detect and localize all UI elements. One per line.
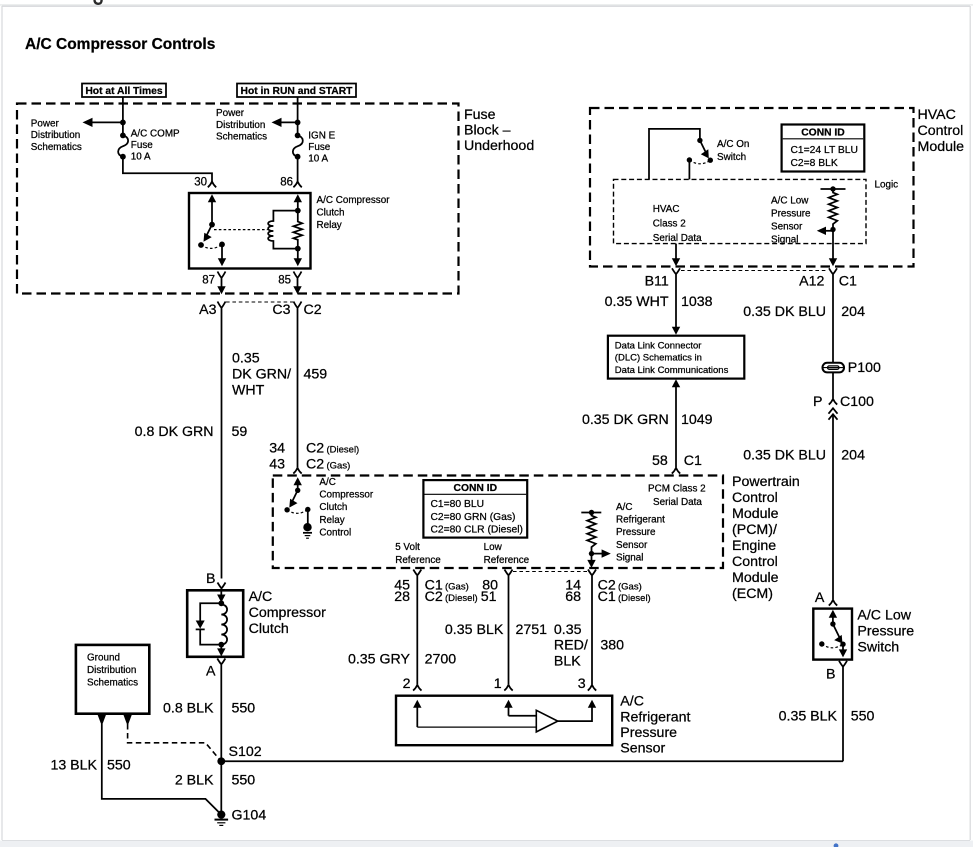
wire B11 to DLC box with down arrow (672, 276, 680, 335)
wire label 0.35 RED/ BLK (554, 622, 588, 669)
svg-text:43: 43 (269, 457, 285, 473)
svg-text:68: 68 (565, 589, 581, 605)
relay coil L (left branch inductor) (268, 211, 298, 249)
svg-text:Control: Control (732, 490, 778, 506)
svg-text:Relay: Relay (317, 220, 342, 231)
connector boundary thin dashed A3-C3 (226, 301, 293, 303)
driver switch contact right (305, 507, 310, 512)
svg-text:0.35 BLK: 0.35 BLK (779, 709, 838, 725)
page panel right border (970, 6, 971, 840)
svg-text:Refrigerant: Refrigerant (616, 515, 665, 526)
svg-text:Distribution: Distribution (87, 665, 136, 676)
svg-text:C2: C2 (304, 302, 322, 318)
svg-text:C2=8 BLK: C2=8 BLK (791, 158, 838, 169)
svg-text:Underhood: Underhood (464, 138, 534, 154)
grommet P100 symbol (823, 363, 845, 373)
sensor output trace (558, 706, 592, 721)
svg-text:550: 550 (851, 709, 875, 725)
HVAC pull-up resistor top node (830, 186, 835, 191)
wire C2 down to PCM (297, 314, 299, 468)
pressure switch contact right (840, 642, 845, 647)
label IGN E Fuse 10 A (308, 131, 335, 165)
fuse F1 A/C COMP Fuse 10 A (118, 133, 128, 160)
A/C On switch feed wire (649, 129, 700, 180)
svg-text:Control: Control (732, 554, 778, 570)
HVAC control module dashed box (590, 108, 914, 267)
svg-text:A/C: A/C (616, 502, 632, 513)
wire 2700 PCM to sensor (416, 580, 418, 685)
wire switch contact into logic (688, 160, 690, 179)
svg-text:0.35 DK BLU: 0.35 DK BLU (743, 304, 826, 320)
wire 85 exits fuse block with arrow (293, 284, 301, 294)
connector A12/C1 fork (829, 268, 837, 276)
svg-text:S102: S102 (229, 744, 262, 760)
svg-text:DK GRN/: DK GRN/ (232, 367, 291, 383)
pin labels 14 / 68 (565, 578, 581, 606)
label 5 Volt Reference (395, 542, 441, 566)
node junction on F2 feed (295, 120, 301, 126)
svg-text:A: A (815, 590, 825, 606)
sensor pin 1 chevron (504, 685, 512, 691)
clutch diode branch (196, 603, 222, 644)
svg-text:0.35 DK GRN: 0.35 DK GRN (582, 412, 669, 428)
svg-text:Clutch: Clutch (249, 621, 289, 637)
label A/C Compressor Clutch Relay Control (319, 477, 373, 538)
ground box left outgoing arrow (98, 715, 106, 726)
svg-text:Sensor: Sensor (771, 222, 803, 233)
wire into clutch with down arrow (217, 590, 225, 602)
PCM sensor resistor zigzag (587, 513, 596, 554)
svg-text:10 A: 10 A (131, 152, 151, 163)
label A/C Low Pressure Switch (857, 608, 914, 656)
svg-text:Pressure: Pressure (616, 527, 656, 538)
svg-text:B11: B11 (645, 274, 669, 290)
svg-text:B: B (206, 571, 215, 587)
svg-text:0.35: 0.35 (554, 622, 582, 638)
wire pin 86 into relay with arrow (294, 194, 302, 210)
svg-text:Sensor: Sensor (620, 741, 665, 757)
svg-text:Hot in RUN and START: Hot in RUN and START (241, 86, 354, 97)
wire 2751 PCM to sensor (508, 580, 510, 685)
label HVAC Class 2 Serial Data (653, 204, 702, 244)
svg-text:C2: C2 (306, 457, 324, 473)
svg-text:Distribution: Distribution (31, 130, 80, 141)
label Powertrain Control Module (PCM)/ Engine Control Module (ECM) (732, 474, 800, 602)
svg-text:2700: 2700 (425, 652, 457, 668)
svg-text:380: 380 (600, 638, 624, 654)
partial heading glyph (cut-off g) at top (95, 0, 102, 4)
svg-text:Clutch: Clutch (319, 502, 347, 513)
svg-text:A/C On: A/C On (717, 139, 749, 150)
sensor internal pin 3 up arrow (588, 700, 596, 708)
wire contact to pin 87 with arrow (218, 244, 226, 266)
svg-text:0.35: 0.35 (232, 351, 260, 367)
label A/C COMP Fuse 10 A (131, 129, 180, 163)
svg-text:BLK: BLK (554, 653, 581, 669)
wire A12 down to P100 (832, 276, 834, 363)
svg-text:C2: C2 (306, 441, 324, 457)
svg-text:CONN ID: CONN ID (454, 483, 497, 494)
svg-text:59: 59 (232, 424, 248, 440)
svg-text:0.35 WHT: 0.35 WHT (605, 294, 669, 310)
label Fuse Block - Underhood (464, 107, 534, 154)
svg-text:58: 58 (652, 453, 668, 469)
svg-text:(Gas): (Gas) (618, 582, 642, 593)
svg-text:0.8 BLK: 0.8 BLK (163, 701, 214, 717)
wire A3 down to clutch pin B (221, 314, 223, 579)
label box Hot in RUN and START (237, 84, 356, 98)
svg-text:C1: C1 (839, 274, 857, 290)
node junction on F1 feed (120, 120, 126, 126)
sensor pin 3 chevron (588, 685, 596, 691)
sensor signal arrow (right) (592, 549, 611, 557)
page panel left border (1, 6, 2, 840)
label A/C Refrigerant Pressure Sensor (620, 694, 690, 757)
A/C On switch contact (right) (708, 158, 713, 163)
svg-text:34: 34 (269, 441, 285, 457)
svg-text:Hot at All Times: Hot at All Times (85, 86, 163, 97)
svg-text:P: P (813, 394, 822, 410)
svg-text:87: 87 (202, 275, 215, 287)
HVAC resistor bottom node (830, 227, 835, 232)
svg-text:Relay: Relay (319, 515, 344, 526)
svg-text:Pressure: Pressure (620, 725, 677, 741)
wire from Hot at All Times down to fuse F1 (122, 97, 124, 135)
pin 86 terminal chevron (293, 182, 301, 188)
ground G104 symbol (215, 820, 229, 826)
CONN ID table (HVAC) (782, 125, 865, 172)
svg-text:Fuse: Fuse (308, 142, 330, 153)
svg-text:Compressor: Compressor (319, 490, 373, 501)
label Ground Distribution Schematics (87, 653, 138, 689)
svg-text:1: 1 (494, 676, 502, 692)
svg-text:P100: P100 (848, 360, 881, 376)
relay actuation dashed link (214, 229, 268, 231)
CONN ID table (PCM) (423, 480, 527, 537)
connector C100 fork (829, 399, 837, 405)
svg-text:Powertrain: Powertrain (732, 474, 800, 490)
svg-text:Fuse: Fuse (131, 140, 153, 151)
internal ground node dot (303, 523, 311, 531)
wire resistor to pin 14/68 (591, 554, 593, 562)
svg-text:Power: Power (31, 119, 60, 130)
pin labels 45 / 28 (394, 578, 410, 606)
svg-text:204: 204 (841, 304, 865, 320)
A/C Refrigerant Pressure Sensor box (396, 696, 612, 746)
driver switch contact left (284, 507, 289, 512)
svg-text:Ground: Ground (87, 653, 120, 664)
connector fork pin 45/28 (413, 570, 421, 581)
label A/C Low Pressure Sensor Signal (771, 196, 811, 246)
svg-text:HVAC: HVAC (653, 204, 680, 215)
svg-text:Pressure: Pressure (857, 623, 914, 639)
svg-text:Signal: Signal (771, 235, 798, 246)
ground box right outgoing arrow (123, 715, 131, 726)
connector fork pin 80/51 (505, 570, 513, 581)
wire 1049 up into DLC box with up arrow (672, 379, 680, 468)
HVAC pull-up resistor top stub (821, 188, 846, 190)
switch pin A chevron (829, 600, 837, 606)
svg-text:C1: C1 (598, 589, 616, 605)
svg-text:(Diesel): (Diesel) (327, 445, 360, 456)
PCM sensor resistor top node (589, 510, 594, 515)
svg-text:A/C Compressor: A/C Compressor (317, 195, 391, 206)
wire contact to pin B with down arrow (839, 644, 847, 657)
svg-text:CONN ID: CONN ID (801, 127, 844, 138)
relay coil resistor (right branch zigzag) (293, 211, 302, 249)
HVAC pull-up resistor zigzag (829, 189, 838, 230)
wire coil to pin 85 with arrow (294, 249, 302, 267)
A/C On switch travel dashed arc (689, 160, 710, 164)
dashed wire ground box to S102 (128, 724, 220, 760)
connector B11 fork (672, 268, 680, 276)
svg-text:1049: 1049 (681, 412, 713, 428)
label A/C Refrigerant Pressure Sensor Signal (616, 502, 665, 563)
svg-text:(Diesel): (Diesel) (445, 593, 478, 604)
A/C On switch contact (left) (687, 157, 692, 162)
svg-text:(Gas): (Gas) (445, 582, 469, 593)
svg-text:PCM Class 2: PCM Class 2 (648, 484, 706, 495)
A/C On switch pivot (697, 138, 702, 143)
svg-text:C100: C100 (840, 394, 874, 410)
driver switch travel dashed arc (287, 510, 308, 514)
svg-text:0.35 GRY: 0.35 GRY (348, 652, 411, 668)
clutch coil bottom junction (218, 642, 224, 648)
svg-text:Fuse: Fuse (464, 107, 496, 123)
label Power Distribution Schematics (left) (31, 119, 82, 153)
wire from fuse F1 to relay pin 30 (123, 157, 212, 182)
label HVAC Control Module (918, 107, 965, 155)
svg-text:C1: C1 (684, 453, 702, 469)
wire contact to internal ground (307, 510, 309, 525)
Data Link Connector schematics box (608, 336, 744, 379)
svg-text:Power: Power (216, 108, 245, 119)
svg-text:13 BLK: 13 BLK (50, 758, 97, 774)
svg-text:IGN E: IGN E (308, 131, 335, 142)
PCM sensor resistor top stub (581, 512, 601, 514)
pin 87 terminal fork (218, 272, 226, 285)
page bottom gray bar (0, 840, 973, 847)
wire clutch A down to S102 and G104 (220, 669, 222, 815)
svg-text:A/C Low: A/C Low (771, 196, 809, 207)
relay switch contact 30 arm (204, 194, 217, 241)
relay coil bottom junction (295, 246, 301, 252)
svg-text:A/C: A/C (620, 694, 644, 710)
svg-text:Reference: Reference (395, 555, 441, 566)
sensor internal pin 2 up arrow (413, 700, 421, 727)
svg-text:Schematics: Schematics (216, 131, 267, 142)
sensor signal arrow into logic (left) (817, 227, 833, 235)
A/C Low Pressure Switch box (813, 609, 852, 660)
svg-text:0.35 BLK: 0.35 BLK (445, 622, 504, 638)
sensor internal 5V trace (417, 726, 536, 728)
svg-text:Engine: Engine (732, 538, 776, 554)
wire ground box to G104 (102, 724, 222, 815)
svg-text:Pressure: Pressure (771, 209, 811, 220)
clutch pin B fork (218, 583, 226, 591)
clutch coil top junction (218, 600, 224, 606)
connector A3 fork (218, 302, 226, 314)
pressure switch contact left (819, 641, 824, 646)
svg-text:28: 28 (394, 589, 410, 605)
svg-text:459: 459 (304, 367, 328, 383)
svg-text:5 Volt: 5 Volt (395, 542, 420, 553)
label A/C Compressor Clutch (249, 589, 327, 637)
fuse block underhood dashed box (17, 104, 459, 294)
svg-text:10 A: 10 A (308, 154, 328, 165)
svg-text:Distribution: Distribution (216, 120, 265, 131)
svg-text:Logic: Logic (875, 180, 899, 191)
svg-text:A12: A12 (799, 274, 824, 290)
relay coil feed junction (295, 208, 301, 214)
wire arrow to Power Distribution Schematics (middle) (272, 118, 298, 127)
svg-text:2 BLK: 2 BLK (175, 773, 214, 789)
wire switch B down to S102 run (842, 669, 844, 762)
fuse F2 IGN E Fuse 10 A (293, 133, 303, 160)
svg-text:A/C COMP: A/C COMP (131, 129, 180, 140)
svg-text:WHT: WHT (232, 383, 265, 399)
pressure switch arm with up arrow (829, 610, 843, 644)
svg-text:Refrigerant: Refrigerant (620, 709, 690, 725)
wire label 0.35 DK GRN/ WHT (232, 351, 291, 399)
svg-text:G104: G104 (232, 808, 267, 824)
svg-text:0.35 DK BLU: 0.35 DK BLU (743, 448, 826, 464)
clutch coil inductor (221, 605, 227, 645)
svg-text:550: 550 (232, 773, 256, 789)
svg-text:C2: C2 (425, 589, 443, 605)
svg-text:86: 86 (280, 177, 293, 189)
svg-text:Serial Data: Serial Data (653, 497, 702, 508)
pin labels C1 (Gas) / C2 (Diesel) (425, 578, 478, 606)
svg-text:(Gas): (Gas) (327, 461, 351, 472)
relay contact alternate point (219, 242, 225, 248)
svg-text:A/C Compressor Controls: A/C Compressor Controls (25, 36, 215, 53)
A/C Compressor Clutch box (187, 590, 243, 657)
svg-text:51: 51 (481, 589, 497, 605)
wire A12 down with arrow at module edge (829, 230, 837, 267)
wire out of clutch with down arrow (217, 645, 225, 657)
PCM resistor bottom node (589, 551, 594, 556)
ground G104 node dot (217, 811, 225, 819)
svg-text:A/C Low: A/C Low (857, 608, 911, 624)
svg-text:Switch: Switch (717, 152, 746, 163)
Ground Distribution Schematics box (76, 645, 149, 714)
svg-text:Class 2: Class 2 (653, 219, 686, 230)
svg-text:204: 204 (841, 448, 865, 464)
relay switch travel dashed arc (201, 244, 222, 248)
svg-text:Switch: Switch (857, 639, 899, 655)
svg-text:85: 85 (278, 275, 291, 287)
wire from Hot in RUN and START down to fuse F2 (297, 97, 299, 135)
wire 380 PCM to sensor (591, 580, 593, 685)
connector boundary thin dashed under PCM (513, 571, 587, 573)
svg-text:Clutch: Clutch (317, 207, 345, 218)
PCM dashed box (273, 476, 723, 569)
svg-text:RED/: RED/ (554, 638, 588, 654)
svg-text:Compressor: Compressor (249, 605, 327, 621)
label Power Distribution Schematics (middle) (216, 108, 267, 142)
connector chevron into PCM at 34/43 (293, 468, 301, 474)
internal ground symbol (303, 533, 312, 538)
pin labels 34 / 43 (269, 441, 285, 473)
svg-text:A3: A3 (199, 302, 216, 318)
wire B11 down with arrow at module edge (672, 244, 680, 267)
svg-text:Data Link Connector: Data Link Connector (615, 341, 702, 352)
connector boundary thin dashed B11-A12 (681, 270, 827, 272)
pin 30 terminal chevron (208, 182, 216, 188)
label PCM Class 2 Serial Data (648, 484, 706, 509)
svg-text:30: 30 (194, 177, 207, 189)
svg-text:2751: 2751 (516, 622, 548, 638)
wire from fuse F2 to relay pin 86 (297, 157, 299, 182)
svg-text:2: 2 (403, 676, 411, 692)
label Data Link Connector (DLC) Schematics in Data Link Communications (615, 341, 729, 377)
svg-text:Module: Module (732, 570, 779, 586)
svg-text:(DLC) Schematics in: (DLC) Schematics in (615, 353, 702, 364)
svg-text:Data Link Communications: Data Link Communications (615, 365, 729, 376)
wire S102 to A/C low pressure switch (long horizontal) (221, 760, 843, 762)
relay contact 87 stationary point (198, 242, 204, 248)
switch pin B fork (839, 661, 847, 669)
pin 85 terminal fork (294, 272, 302, 285)
page panel top border (0, 4, 973, 7)
wire C100 down to A/C low pressure switch (832, 414, 834, 600)
pin labels C2 (Gas) / C1 (Diesel) (598, 578, 651, 606)
connector C3/C2 fork (294, 302, 302, 314)
svg-text:3: 3 (578, 676, 586, 692)
label Low Reference (484, 542, 530, 566)
splice S102 junction dot (217, 757, 225, 765)
svg-text:Reference: Reference (484, 555, 530, 566)
connector fork pin 14/68 (588, 570, 596, 581)
label A/C Compressor Clutch Relay (317, 195, 391, 231)
relay K1 A/C Compressor Clutch Relay box (189, 193, 311, 269)
svg-text:Module: Module (918, 139, 965, 155)
svg-text:Control: Control (319, 527, 351, 538)
wire P100 to C100 (832, 372, 834, 398)
svg-text:550: 550 (232, 701, 256, 717)
sensor internal pin 1 up arrow (504, 700, 512, 716)
svg-text:(PCM)/: (PCM)/ (732, 522, 777, 538)
A/C On switch arm with arrow (700, 140, 709, 158)
svg-text:B: B (826, 667, 835, 683)
svg-text:C1=80 BLU: C1=80 BLU (431, 499, 485, 510)
label A/C On Switch (717, 139, 749, 163)
clutch pin A fork (217, 659, 225, 669)
wire 87 exits fuse block with arrow (217, 284, 225, 294)
svg-text:Low: Low (484, 542, 503, 553)
sensor pin 2 chevron (413, 685, 421, 691)
svg-text:HVAC: HVAC (918, 107, 956, 123)
svg-text:C1=24 LT BLU: C1=24 LT BLU (791, 145, 858, 156)
svg-text:Module: Module (732, 506, 779, 522)
svg-text:Serial Data: Serial Data (653, 233, 702, 244)
sensor internal low-ref trace (509, 715, 537, 717)
svg-text:C3: C3 (272, 302, 290, 318)
svg-text:Schematics: Schematics (31, 142, 82, 153)
svg-text:C2=80 GRN (Gas): C2=80 GRN (Gas) (431, 512, 516, 523)
svg-text:A/C: A/C (249, 589, 273, 605)
svg-text:Schematics: Schematics (87, 677, 138, 688)
clutch relay control driver switch with up arrow (289, 477, 302, 507)
svg-text:0.8 DK GRN: 0.8 DK GRN (135, 424, 214, 440)
svg-text:550: 550 (107, 758, 131, 774)
sensor op-amp triangle (536, 710, 558, 732)
pin labels 80 / 51 (481, 578, 498, 606)
svg-text:Signal: Signal (616, 552, 643, 563)
svg-text:(Diesel): (Diesel) (618, 593, 651, 604)
svg-text:A: A (206, 664, 216, 680)
